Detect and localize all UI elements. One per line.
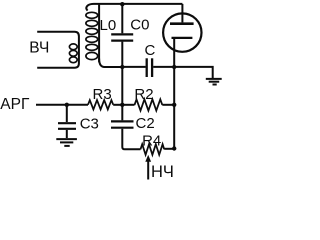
tube cathode lead down	[173, 38, 175, 67]
resistor R2	[135, 99, 163, 110]
capacitor C3 bottom lead	[66, 130, 68, 138]
wire cathode column to row C	[173, 67, 175, 105]
capacitor C0 plates	[111, 34, 133, 40]
svg-text:R2: R2	[134, 86, 153, 103]
node dot cathode column row C	[172, 103, 176, 107]
vacuum tube envelope U1	[163, 13, 201, 51]
capacitor C3 plates	[58, 123, 76, 129]
tube anode lead	[181, 4, 183, 23]
svg-text:C3: C3	[80, 116, 99, 133]
ground symbol right	[206, 79, 222, 85]
svg-text:C0: C0	[130, 17, 149, 34]
node dot cathode row B	[172, 65, 176, 69]
transformer primary loops	[69, 44, 77, 63]
capacitor C3 top lead	[66, 105, 68, 122]
node dot middle column row B	[120, 65, 124, 69]
svg-text:R4: R4	[142, 132, 161, 149]
wire R3 to middle column	[113, 104, 122, 106]
wire row B to right ground	[174, 67, 213, 78]
wire row B left of capacitor C	[122, 66, 145, 68]
ground symbol under C3	[56, 139, 77, 146]
inductor L0 loops	[86, 12, 98, 59]
tube cathode	[172, 37, 193, 39]
wire АРГ input	[36, 104, 88, 106]
capacitor C2 bottom lead to R4	[122, 129, 140, 150]
tube anode plate	[170, 22, 194, 25]
node dot middle column row C	[120, 103, 124, 107]
wire R4 to cathode column	[164, 148, 174, 150]
wire row B right of capacitor C	[153, 66, 174, 68]
svg-text:НЧ: НЧ	[151, 163, 174, 180]
capacitor C0 bottom lead / middle column upper	[121, 42, 123, 67]
wire middle column to R2	[122, 104, 134, 106]
node dot cathode column R4	[172, 146, 176, 150]
svg-text:ВЧ: ВЧ	[29, 40, 49, 57]
inductor L0 secondary winding (swoop + vertical + bottom bend)	[86, 4, 104, 67]
node dot C3 tap	[65, 103, 69, 107]
svg-text:C2: C2	[136, 115, 155, 132]
node dot on rail at C0	[120, 2, 124, 6]
capacitor C2 top lead	[121, 105, 123, 121]
capacitor C0 top lead	[121, 4, 123, 33]
wire top rail	[94, 3, 183, 5]
wire middle column row B to row C	[121, 67, 123, 105]
potentiometer wiper arrow	[145, 155, 151, 180]
svg-text:L0: L0	[100, 17, 117, 34]
svg-text:R3: R3	[93, 86, 112, 103]
wire L0 bottom to middle column	[104, 66, 122, 68]
resistor R4	[141, 144, 165, 155]
transformer primary winding frame (stubs + vertical)	[37, 32, 79, 68]
capacitor C2 plates	[111, 121, 134, 127]
capacitor C plates	[147, 58, 152, 77]
wire cathode column row C to R4	[173, 105, 175, 149]
svg-text:АРГ: АРГ	[0, 96, 30, 113]
svg-text:C: C	[145, 42, 156, 59]
wire R2 to cathode column	[162, 104, 174, 106]
resistor R3	[88, 100, 113, 109]
